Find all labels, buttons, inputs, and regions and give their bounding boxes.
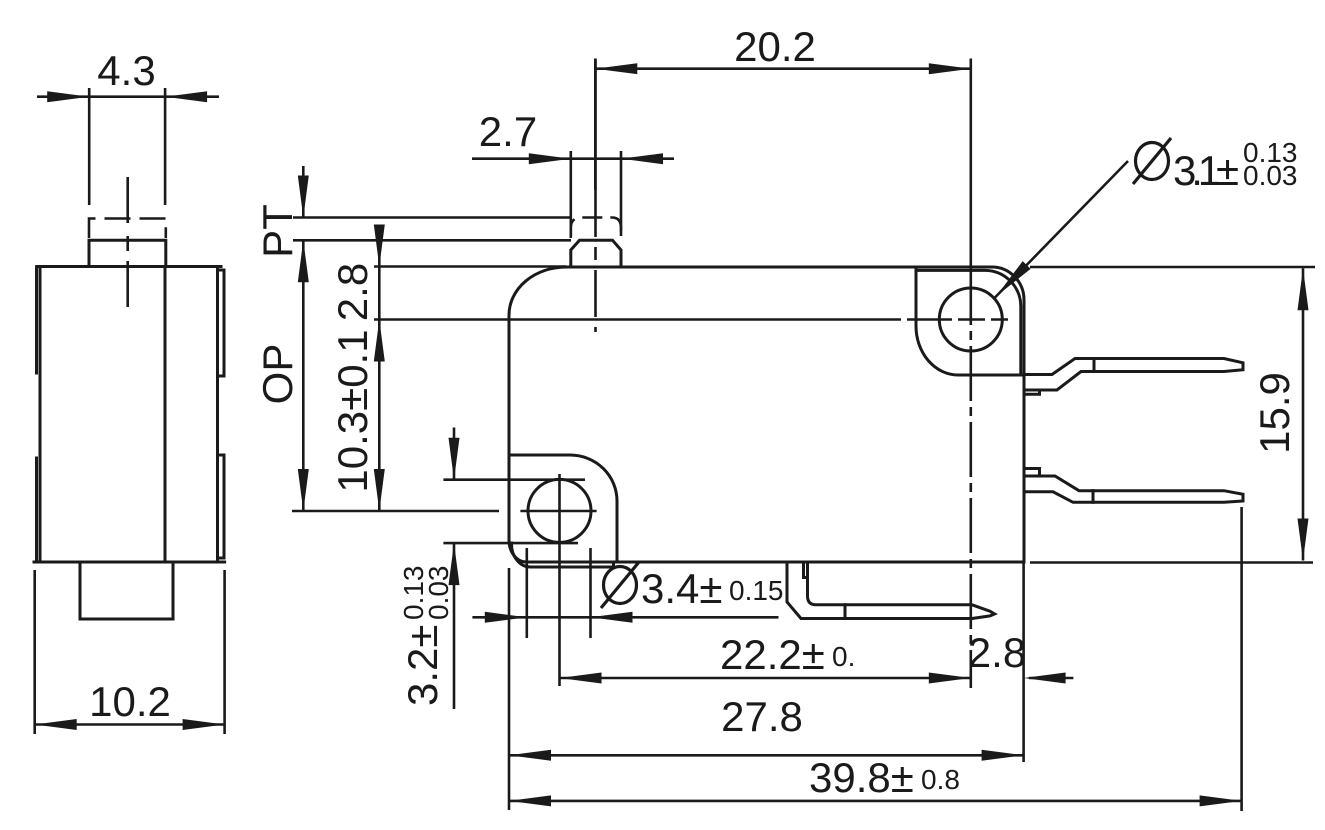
switch body outline <box>509 267 1024 562</box>
top-right mounting boss <box>916 268 1024 376</box>
dim PT / OP vertical line <box>302 166 305 218</box>
lower terminal bend tick <box>1092 491 1095 503</box>
reference line hole center extension <box>374 318 901 321</box>
left cover plate edge (upper segment) <box>35 268 38 373</box>
svg-text:10.3±0.1: 10.3±0.1 <box>329 329 376 492</box>
label Ø3.4±0.15 <box>601 562 784 612</box>
top-right boss inner seam <box>917 270 1021 375</box>
plunger button (side view, pressed position) <box>89 240 166 266</box>
centerline plunger (main view) <box>594 59 597 191</box>
centerline bottom hole vertical <box>558 474 561 686</box>
upper terminal bend tick <box>1093 359 1096 372</box>
right cover plate edge (lower segment) <box>218 455 225 558</box>
upper terminal base tab <box>1024 390 1040 394</box>
svg-text:2.8: 2.8 <box>968 629 1026 676</box>
dim 27.8 <box>508 568 511 810</box>
svg-text:10.2: 10.2 <box>89 678 171 725</box>
svg-text:2.8: 2.8 <box>329 263 376 321</box>
mounting hole (top right) <box>939 288 1002 351</box>
bottom-left lug inner seam <box>511 543 613 567</box>
plunger released position (dashed, front view) <box>571 218 621 239</box>
reference line bottom hole center horizontal <box>292 510 499 513</box>
label Ø3.1 +0.13/-0.03 <box>1133 137 1298 194</box>
body inner edge line <box>164 267 167 563</box>
upper right terminal <box>1024 359 1243 391</box>
svg-text:20.2: 20.2 <box>734 23 816 70</box>
svg-text:4.3: 4.3 <box>97 47 155 94</box>
svg-text:PT: PT <box>254 204 301 258</box>
mounting hole (bottom left) <box>528 479 591 542</box>
bottom-left mounting boss / lug <box>509 455 617 562</box>
dim 39.8±0.8 <box>1240 507 1243 811</box>
left cover plate edge (lower segment) <box>35 458 38 560</box>
centerline of plunger (left view) <box>126 177 129 309</box>
dim Ø3.4 (bottom hole diameter) <box>525 548 528 638</box>
dim 2.8 / 10.3 vertical line <box>378 240 381 511</box>
svg-text:0.03: 0.03 <box>423 566 454 621</box>
reference line body top extension <box>374 265 566 268</box>
centerline hole top right vertical <box>969 270 972 688</box>
dim 4.3 (left view button width) <box>37 95 219 98</box>
svg-text:0.03: 0.03 <box>1243 160 1298 191</box>
lower right terminal <box>1024 476 1243 502</box>
plunger button (front view) <box>571 240 621 267</box>
reference line free position <box>293 216 571 219</box>
dim 22.2 <box>560 677 971 680</box>
tangent line hole bottom <box>443 542 578 545</box>
svg-text:OP: OP <box>254 344 301 405</box>
svg-text:3.4±: 3.4± <box>641 565 722 612</box>
dim 2.8 (hole center to body edge) <box>1022 563 1025 763</box>
bottom terminal outer edge <box>787 563 995 619</box>
bottom terminal bend tick <box>844 605 847 619</box>
switch body (side view) <box>40 267 218 563</box>
reference line operating position <box>293 239 571 242</box>
dim 15.9 (body height) <box>1030 266 1315 269</box>
svg-text:3.2±: 3.2± <box>399 625 446 706</box>
dim 20.2 (plunger center to hole center) <box>594 59 597 191</box>
lower terminal base tab <box>1024 469 1040 474</box>
svg-text:0.: 0. <box>832 641 855 672</box>
svg-text:0.8: 0.8 <box>921 764 960 795</box>
plunger released position (dashed) <box>89 219 166 239</box>
dim 3.2 vertical line <box>453 428 456 480</box>
svg-text:15.9: 15.9 <box>1251 372 1298 454</box>
label 3.2 +0.13/-0.03 (vertical) <box>398 566 454 707</box>
leader line Ø3.1 (top hole) <box>994 161 1128 299</box>
svg-text:2.7: 2.7 <box>479 108 537 155</box>
svg-text:39.8±: 39.8± <box>809 754 914 801</box>
bottom boss (side view) <box>80 562 173 619</box>
bottom terminal notch edge <box>806 563 809 578</box>
tangent line hole top <box>443 478 585 481</box>
right cover plate edge (upper segment) <box>218 270 225 376</box>
svg-text:22.2±: 22.2± <box>720 631 825 678</box>
dim 2.7 (plunger width) <box>569 151 572 236</box>
svg-text:27.8: 27.8 <box>721 693 803 740</box>
svg-text:3.1±: 3.1± <box>1173 147 1239 194</box>
svg-text:0.15: 0.15 <box>729 575 784 606</box>
dim 10.2 (left view body width) <box>33 570 36 734</box>
